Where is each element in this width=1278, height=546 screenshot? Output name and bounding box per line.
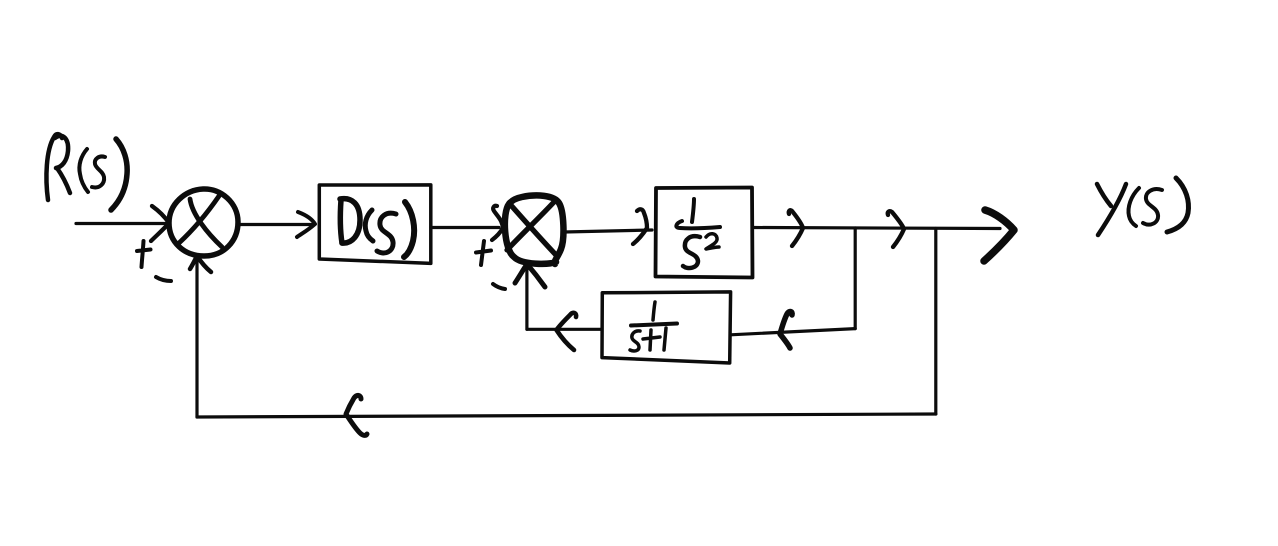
label D(s) (340, 199, 414, 257)
arrowhead into S1 (151, 206, 169, 241)
minus sign at S2 (493, 284, 505, 289)
plus sign at S2 (476, 241, 491, 265)
label R(s) (46, 134, 127, 210)
wire outer feedback bottom horizontal (197, 414, 936, 417)
wire D(s) to S2 (431, 226, 499, 229)
arrowhead chevron 1 on output wire (789, 210, 803, 246)
arrowhead feedback into S1 bottom (190, 256, 211, 272)
wire inner feedback tap to block 1/(s+1) (731, 329, 856, 335)
arrowhead into S2 (492, 206, 503, 240)
wire S1 to D(s) (238, 223, 313, 226)
X inside S1 (179, 196, 219, 243)
summing junction S2 (505, 195, 564, 264)
wire vertical up into S2 (525, 264, 528, 329)
arrowhead into block 1/s^2 (633, 209, 647, 244)
minus sign at S1 (156, 277, 171, 281)
arrowhead chevron 2 on output wire (888, 211, 904, 247)
wire inner feedback tap vertical (854, 228, 857, 329)
block D(s) (319, 185, 431, 264)
summing junction S1 (169, 189, 238, 256)
arrowhead chevron into block 1/(s+1) (780, 311, 792, 348)
label 1/(s+1) (630, 302, 677, 351)
wire 1/s^2 to output (753, 228, 1000, 229)
wire block 1/(s+1) to S2 (527, 328, 602, 331)
wire outer feedback vertical right (934, 229, 937, 415)
arrowhead chevron on wire to S2 (557, 313, 577, 350)
plus sign at S1 (137, 241, 151, 267)
wire input to summing junction S1 (76, 222, 167, 225)
X inside S2 (509, 203, 556, 255)
block 1/s^2 (656, 188, 753, 278)
block 1/(s+1) (602, 292, 731, 363)
label Y(s) (1097, 178, 1189, 235)
arrowhead feedback into S2 bottom (515, 264, 545, 287)
arrowhead chevron on bottom wire (346, 395, 367, 435)
arrowhead into D(s) (297, 212, 315, 237)
wire S2 to block 1/s^2 (564, 230, 652, 232)
wire outer feedback vertical left up to S1 (195, 257, 198, 417)
label 1/s^2 (676, 199, 720, 268)
output arrowhead (984, 210, 1014, 261)
